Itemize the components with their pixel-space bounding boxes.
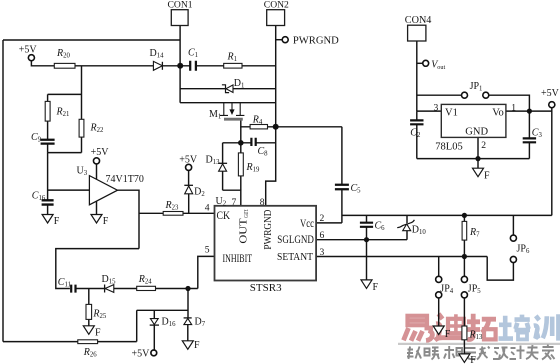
svg-text:+5V: +5V (19, 45, 38, 56)
node SETANT junction (462, 254, 467, 259)
wire up to INHIBIT pin (198, 256, 215, 288)
wire top-left horizontal (3, 39, 180, 41)
wire JP1 run (417, 95, 530, 111)
resistor R19 (238, 153, 243, 176)
wire D16 leads (153, 310, 155, 350)
wire left vertical rail (2, 40, 4, 342)
wire R19 branch (240, 143, 242, 190)
svg-text:74V1T70: 74V1T70 (106, 174, 144, 185)
svg-text:2: 2 (320, 213, 325, 224)
wire pin7 lead (223, 190, 241, 206)
transistor M1 (220, 103, 245, 116)
wire C5 vertical (341, 127, 343, 223)
wire R25 branch (88, 289, 90, 326)
wire Vout stub (417, 62, 423, 64)
watermark red char di (435, 314, 464, 340)
svg-text:INHIBIT: INHIBIT (223, 251, 253, 265)
capacitor C9 (41, 140, 55, 144)
svg-text:OUT: OUT (237, 218, 249, 244)
resistor R4 (250, 125, 267, 129)
wire 78L05 bottom rail (417, 158, 530, 160)
capacitor C6 (360, 223, 373, 227)
svg-text:CON4: CON4 (405, 15, 432, 26)
resistor R7 (462, 221, 467, 240)
resistor R20 (54, 63, 75, 68)
wire C3 leads (528, 111, 530, 159)
ground 78L05 (473, 168, 484, 177)
node R24 D7 junction (185, 286, 190, 291)
terminal PWRGND (282, 37, 288, 43)
watermark blue char xun (534, 314, 559, 340)
wire JP5 branch (463, 257, 465, 354)
wire U3 output (118, 190, 140, 248)
svg-text:V1: V1 (445, 108, 458, 119)
watermark blue char pei (499, 315, 531, 340)
wire JP4 branch (438, 257, 440, 327)
diode D2 (184, 184, 193, 186)
svg-text:+5V: +5V (91, 147, 110, 158)
wire D7 branch down (187, 289, 189, 341)
connector CON1 (171, 10, 188, 26)
svg-text:F: F (194, 340, 200, 351)
svg-text:F: F (103, 216, 109, 227)
node Vo junction (527, 109, 532, 114)
capacitor C3 (523, 138, 536, 142)
wire main top run (75, 65, 276, 67)
svg-text:GATE: GATE (244, 209, 250, 217)
wire SETANT pin3 run (316, 256, 487, 258)
watermark gray slogan characters (407, 345, 555, 360)
wire C11 to R24 run (76, 288, 198, 290)
ground under JP4 (433, 326, 444, 335)
svg-text:PWRGND: PWRGND (262, 210, 274, 250)
node CON1 junction (177, 63, 183, 69)
svg-text:1: 1 (511, 102, 516, 113)
watermark divider line (398, 343, 560, 345)
watermark red char tuo (467, 314, 496, 340)
wire 78L05 pin2 gnd (477, 137, 479, 168)
wire +5V right drop (551, 108, 553, 216)
svg-text:Vcc: Vcc (300, 216, 314, 230)
terminal +5V bottom (151, 350, 157, 356)
wire +5V feed top-left (31, 61, 54, 66)
zener D1 (226, 85, 233, 93)
svg-text:F: F (484, 171, 490, 182)
wire +5V rail right (342, 214, 552, 216)
svg-text:SGLGND: SGLGND (277, 232, 314, 246)
jumper JP1 (462, 92, 468, 98)
node R7 top junction (462, 213, 467, 218)
wire JP6 branch (487, 215, 513, 280)
wire R7 leads (463, 215, 465, 256)
svg-text:PWRGND: PWRGND (293, 35, 339, 46)
wire R26 bottom line (3, 341, 137, 343)
wire SGLGND pin6 run (316, 239, 407, 241)
wire left drop to R26 line (136, 310, 138, 341)
svg-text:7: 7 (232, 197, 237, 208)
wire M1 node down to C8 node (240, 127, 242, 143)
wire 78L05 pin3 (417, 110, 442, 112)
svg-text:CON2: CON2 (264, 0, 289, 10)
svg-text:F: F (54, 216, 60, 227)
svg-text:+5V: +5V (179, 154, 198, 165)
terminal +5V for U3 (93, 158, 99, 164)
terminal +5V for D2 (186, 164, 192, 170)
resistor R24 (137, 286, 156, 290)
capacitor C8 (251, 138, 255, 146)
capacitor C11 (71, 285, 75, 293)
svg-text:F: F (373, 282, 379, 293)
svg-text:STSR3: STSR3 (250, 282, 282, 294)
wire C8 horizontal run (223, 142, 276, 144)
watermark red char yi (404, 316, 434, 341)
svg-text:F: F (95, 328, 101, 339)
terminal +5V top-left (28, 55, 34, 61)
resistor R21 (45, 101, 50, 121)
wire CON2 stem down (275, 26, 277, 127)
svg-text:CON1: CON1 (168, 0, 193, 10)
svg-text:6: 6 (320, 230, 325, 241)
wire R4 junction to C5 branch (276, 126, 342, 128)
svg-text:78L05: 78L05 (435, 142, 462, 153)
svg-text:3: 3 (434, 102, 439, 113)
node SGLGND junction (364, 237, 369, 242)
resistor R1 (224, 63, 242, 68)
ground under D7 (182, 341, 193, 350)
svg-text:F: F (470, 355, 476, 364)
wire D2 vertical (188, 170, 190, 213)
wire R21 R22 branch (48, 66, 82, 153)
svg-text:4: 4 (205, 202, 210, 213)
capacitor C5 (335, 185, 349, 190)
capacitor C2 (410, 120, 423, 124)
connector CON4 (408, 25, 426, 41)
regulator 78L05 box (441, 104, 506, 137)
resistor R26 (78, 340, 98, 344)
capacitor C1 (190, 61, 196, 71)
wire 78L05 pin1 out (506, 110, 552, 112)
diode D13 (218, 162, 227, 164)
wire U3 bottom stem (96, 201, 98, 215)
wire CK run (139, 212, 215, 214)
jumper JP6 (510, 235, 516, 241)
diode D15 (104, 285, 106, 293)
jumper JP5 (461, 276, 467, 282)
svg-text:SETANT: SETANT (277, 251, 313, 263)
svg-text:Vo: Vo (492, 108, 503, 119)
wire D10 leads (406, 215, 408, 239)
wire inhibit loop left (56, 249, 139, 289)
svg-text:8: 8 (260, 197, 265, 208)
svg-text:5: 5 (205, 245, 210, 256)
resistor R23 (163, 212, 183, 216)
op-amp U2 STSR3 body (215, 206, 317, 281)
wire D1 upper rail (180, 88, 276, 90)
resistor R22 (79, 119, 84, 137)
wire left rail segment between runs (179, 66, 181, 103)
diode D14 (153, 61, 162, 70)
op-amp U3 buffer triangle (89, 176, 117, 205)
connector CON2 (267, 10, 285, 26)
svg-text:+5V: +5V (132, 349, 151, 360)
svg-text:+5V: +5V (541, 88, 560, 99)
node R4 rail junction (273, 124, 279, 130)
resistor R25 (86, 304, 92, 319)
node C8 junction (238, 140, 244, 146)
terminal +5V right (549, 102, 555, 108)
resistor R13 (462, 326, 467, 340)
wire Vcc pin2 run (316, 222, 342, 224)
svg-text:GND: GND (465, 127, 488, 138)
wire M1 source to R4 line (241, 119, 276, 127)
svg-text:CK: CK (217, 208, 231, 222)
wire D16 top line (137, 309, 188, 311)
ground for SGLGND (361, 280, 372, 289)
svg-text:F: F (445, 329, 451, 340)
wire CON1 stem (179, 26, 181, 66)
wire C16 node to U3 input (48, 153, 90, 215)
ground under U3 (91, 215, 102, 224)
zener D10 (397, 220, 414, 228)
wire C2 leads (416, 111, 418, 159)
wire D13 branch (222, 143, 224, 190)
diode D16 (150, 319, 158, 325)
wire PWRGND stub (276, 39, 283, 41)
wire M1 lower rail (180, 102, 276, 104)
wire CON4 stem (416, 41, 418, 111)
ground under R25 (83, 326, 94, 335)
svg-text:3: 3 (320, 247, 325, 258)
wire sgl ground branch (366, 240, 368, 280)
diode D7 (184, 317, 192, 319)
wire C6 leads (366, 215, 368, 239)
svg-text:2: 2 (481, 140, 486, 151)
wire +5V stem U3 (96, 164, 98, 180)
ground under C16 (42, 215, 53, 224)
node pin2 gnd junction (475, 156, 480, 161)
jumper JP4 (436, 276, 442, 282)
ground under R13 (459, 354, 470, 363)
terminal Vout (423, 60, 429, 66)
wire CON2 line down to pin 8 (266, 127, 276, 206)
capacitor C16 (42, 200, 54, 204)
